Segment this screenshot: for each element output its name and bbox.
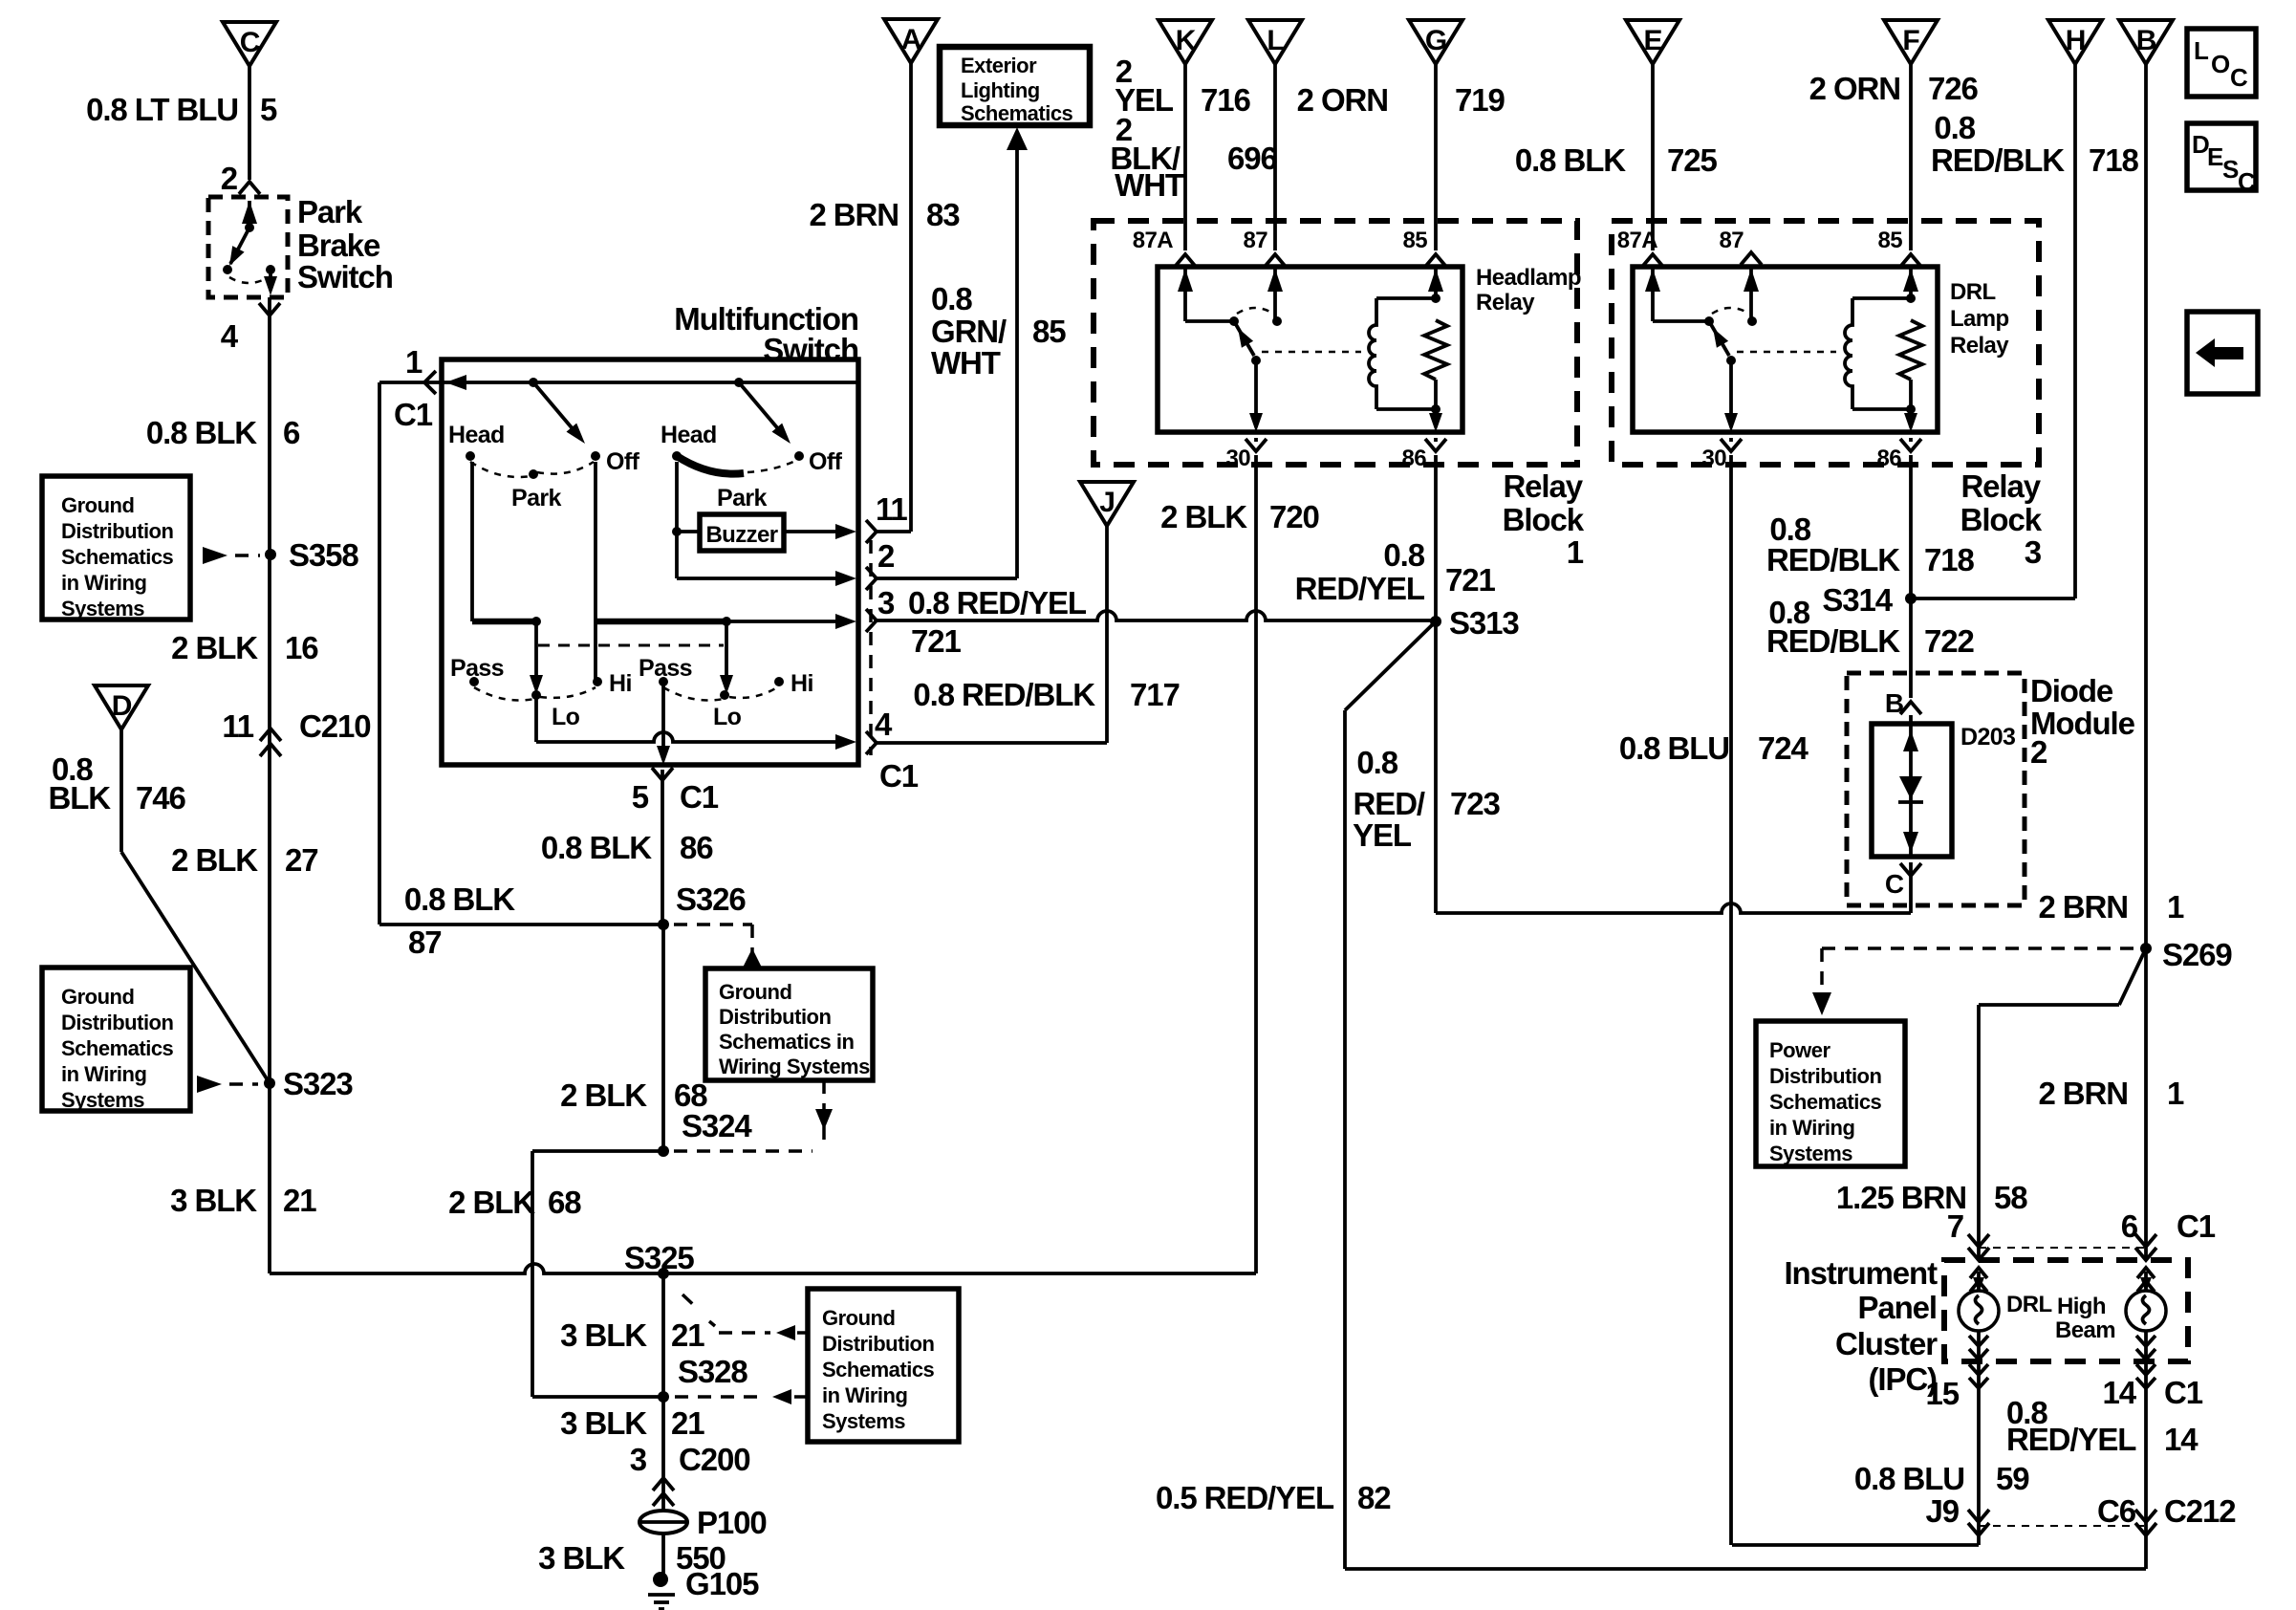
svg-text:59: 59 [1996,1461,2029,1496]
svg-text:Ground: Ground [61,985,134,1009]
svg-text:C1: C1 [394,397,433,432]
svg-text:58: 58 [1994,1180,2027,1215]
svg-text:68: 68 [548,1185,581,1220]
svg-text:0.5 RED/YEL: 0.5 RED/YEL [1156,1480,1334,1515]
svg-text:GRN/: GRN/ [931,314,1007,349]
svg-text:746: 746 [136,780,186,816]
svg-text:C: C [2230,63,2248,92]
svg-text:Lo: Lo [713,704,742,730]
svg-text:3 BLK: 3 BLK [560,1317,647,1353]
svg-text:Buzzer: Buzzer [705,522,777,548]
svg-text:3 BLK: 3 BLK [538,1540,625,1576]
svg-text:Diode: Diode [2030,673,2113,708]
svg-text:2 ORN: 2 ORN [1297,82,1388,118]
svg-text:Relay: Relay [1950,333,2009,359]
svg-text:1: 1 [2167,889,2184,925]
svg-text:WHT: WHT [931,345,1001,381]
svg-text:S314: S314 [1822,582,1893,618]
svg-text:Park: Park [297,194,363,229]
svg-text:2: 2 [877,538,895,574]
svg-text:in Wiring: in Wiring [1769,1116,1854,1140]
svg-text:Block: Block [1503,502,1585,537]
svg-text:in Wiring: in Wiring [61,1062,146,1086]
svg-text:Schematics: Schematics [61,545,174,569]
svg-text:RED/YEL: RED/YEL [2006,1422,2136,1457]
svg-text:C: C [1885,869,1904,899]
svg-text:4: 4 [221,318,239,354]
svg-text:Brake: Brake [297,228,380,263]
svg-text:Schematics: Schematics [822,1358,935,1382]
svg-text:Lamp: Lamp [1950,306,2009,332]
svg-text:721: 721 [911,623,962,659]
svg-text:21: 21 [283,1183,316,1218]
svg-text:C: C [240,27,260,58]
svg-text:WHT: WHT [1115,167,1184,203]
svg-text:726: 726 [1928,71,1979,106]
svg-text:C1: C1 [2164,1375,2203,1410]
svg-text:E: E [2207,142,2223,171]
svg-text:Distribution: Distribution [61,519,173,543]
svg-text:0.8 LT BLU: 0.8 LT BLU [86,92,238,127]
svg-text:2 BLK: 2 BLK [1160,499,1247,534]
svg-text:Headlamp: Headlamp [1476,265,1581,291]
svg-text:0.8 BLK: 0.8 BLK [146,415,257,450]
svg-text:716: 716 [1201,82,1251,118]
svg-text:3: 3 [630,1442,647,1477]
svg-text:Pass: Pass [450,655,504,682]
svg-text:C6: C6 [2097,1493,2136,1529]
svg-text:1: 1 [2167,1076,2184,1111]
svg-text:6: 6 [2121,1208,2138,1244]
svg-text:4: 4 [875,707,893,742]
svg-text:DRL: DRL [2006,1292,2052,1317]
svg-text:D203: D203 [1960,724,2015,751]
svg-text:0.8: 0.8 [1356,745,1397,780]
svg-text:718: 718 [1924,542,1975,577]
svg-text:Ground: Ground [719,980,791,1004]
svg-text:7: 7 [1947,1208,1963,1244]
svg-text:Instrument: Instrument [1784,1255,1938,1291]
svg-text:86: 86 [680,830,713,865]
svg-text:14: 14 [2102,1375,2136,1410]
svg-text:721: 721 [1445,562,1496,598]
svg-text:27: 27 [285,842,318,878]
svg-text:0.8 BLK: 0.8 BLK [404,881,515,917]
svg-text:Lo: Lo [552,704,580,730]
svg-text:Relay: Relay [1503,468,1583,504]
svg-text:High: High [2057,1294,2106,1319]
svg-text:87: 87 [1720,228,1744,253]
svg-text:86: 86 [1877,446,1902,471]
svg-text:5: 5 [260,92,277,127]
svg-text:3 BLK: 3 BLK [170,1183,257,1218]
svg-text:Distribution: Distribution [822,1332,934,1356]
svg-text:724: 724 [1758,730,1809,766]
svg-text:Ground: Ground [822,1306,895,1330]
svg-text:C200: C200 [679,1442,750,1477]
svg-text:11: 11 [876,491,907,527]
svg-text:S: S [2222,155,2239,184]
svg-text:2 BRN: 2 BRN [2038,889,2128,925]
svg-text:Systems: Systems [61,1088,144,1112]
svg-text:11: 11 [222,708,253,744]
svg-text:Switch: Switch [763,332,858,367]
svg-text:J: J [1099,487,1115,518]
svg-text:J9: J9 [1925,1493,1959,1529]
svg-text:0.8: 0.8 [931,281,972,316]
svg-text:Relay: Relay [1960,468,2041,504]
svg-text:L: L [1267,25,1284,56]
svg-text:Wiring Systems: Wiring Systems [719,1055,870,1078]
svg-text:D: D [112,690,132,722]
svg-text:21: 21 [671,1405,704,1441]
svg-text:15: 15 [1925,1376,1959,1411]
svg-text:0.8: 0.8 [1934,110,1975,145]
svg-text:2 BLK: 2 BLK [171,842,258,878]
svg-text:2: 2 [221,161,238,196]
svg-text:2 ORN: 2 ORN [1809,71,1900,106]
svg-text:E: E [1644,25,1662,56]
svg-text:S328: S328 [678,1354,747,1389]
svg-text:S269: S269 [2162,937,2232,972]
svg-text:Switch: Switch [297,259,393,294]
svg-text:Off: Off [809,448,843,475]
svg-text:0.8 BLK: 0.8 BLK [541,830,652,865]
svg-text:S324: S324 [682,1108,752,1143]
svg-text:696: 696 [1227,141,1278,176]
svg-text:Head: Head [448,422,505,448]
svg-text:85: 85 [1403,228,1428,253]
svg-text:C1: C1 [680,779,719,815]
svg-text:720: 720 [1269,499,1319,534]
svg-text:Block: Block [1960,502,2043,537]
svg-text:2 BLK: 2 BLK [560,1077,647,1113]
svg-text:723: 723 [1450,786,1501,821]
svg-text:2: 2 [2030,734,2047,770]
svg-text:Schematics: Schematics [961,101,1073,125]
svg-text:Relay: Relay [1476,290,1535,315]
svg-text:RED/YEL: RED/YEL [1295,571,1425,606]
svg-text:0.8 BLK: 0.8 BLK [1515,142,1626,178]
svg-text:Distribution: Distribution [719,1005,831,1029]
svg-text:3 BLK: 3 BLK [560,1405,647,1441]
svg-text:C: C [2238,167,2256,196]
svg-text:725: 725 [1667,142,1718,178]
svg-text:87: 87 [408,925,442,960]
svg-text:2 BRN: 2 BRN [2038,1076,2128,1111]
svg-text:H: H [2066,25,2086,56]
svg-text:S313: S313 [1449,605,1519,641]
svg-text:0.8 RED/BLK: 0.8 RED/BLK [913,677,1095,712]
svg-text:1: 1 [405,344,422,380]
svg-text:Panel: Panel [1857,1290,1937,1325]
svg-text:2 BRN: 2 BRN [809,197,899,232]
svg-text:3: 3 [877,585,895,620]
svg-text:Distribution: Distribution [61,1011,173,1034]
svg-text:717: 717 [1130,677,1180,712]
svg-text:Schematics: Schematics [1769,1090,1882,1114]
svg-text:RED/BLK: RED/BLK [1766,623,1900,659]
svg-text:C212: C212 [2164,1493,2236,1529]
svg-text:0.8 BLU: 0.8 BLU [1854,1461,1964,1496]
svg-text:P100: P100 [697,1505,767,1540]
svg-text:21: 21 [671,1317,704,1353]
svg-text:F: F [1902,25,1919,56]
svg-text:S323: S323 [283,1066,353,1101]
svg-text:C1: C1 [879,758,919,794]
svg-text:3: 3 [2025,534,2042,570]
svg-text:85: 85 [1878,228,1903,253]
svg-text:Cluster: Cluster [1835,1326,1938,1361]
svg-text:0.8 BLU: 0.8 BLU [1619,730,1729,766]
svg-text:RED/BLK: RED/BLK [1766,542,1900,577]
svg-text:Lighting: Lighting [961,78,1040,102]
svg-text:Hi: Hi [791,670,813,697]
svg-text:S325: S325 [624,1240,694,1275]
svg-text:B: B [2136,25,2156,56]
svg-text:C210: C210 [299,708,371,744]
svg-text:in Wiring: in Wiring [61,571,146,595]
svg-text:0.8 RED/YEL: 0.8 RED/YEL [908,585,1087,620]
svg-text:Systems: Systems [1769,1142,1852,1165]
svg-text:718: 718 [2089,142,2139,178]
svg-text:0.8: 0.8 [1383,537,1424,573]
svg-text:87: 87 [1244,228,1268,253]
svg-text:Head: Head [661,422,717,448]
svg-text:87A: 87A [1133,228,1173,253]
svg-text:Ground: Ground [61,493,134,517]
svg-text:DRL: DRL [1950,279,1996,305]
svg-text:in Wiring: in Wiring [822,1383,907,1407]
svg-text:Systems: Systems [61,597,144,620]
svg-text:30: 30 [1702,446,1727,471]
svg-text:Hi: Hi [609,670,632,697]
svg-text:Park: Park [717,485,768,511]
svg-text:719: 719 [1455,82,1505,118]
svg-text:Systems: Systems [822,1409,905,1433]
svg-text:G105: G105 [685,1566,759,1601]
svg-text:Schematics: Schematics [61,1036,174,1060]
svg-text:S326: S326 [676,881,746,917]
svg-text:L: L [2194,36,2209,65]
svg-text:86: 86 [1402,446,1427,471]
svg-text:83: 83 [926,197,960,232]
svg-text:82: 82 [1357,1480,1391,1515]
svg-text:6: 6 [283,415,300,450]
svg-text:C1: C1 [2177,1208,2216,1244]
svg-text:722: 722 [1924,623,1975,659]
svg-text:1: 1 [1567,534,1584,570]
svg-text:BLK: BLK [48,780,111,816]
svg-text:2 BLK: 2 BLK [448,1185,535,1220]
svg-text:30: 30 [1226,446,1251,471]
svg-text:S358: S358 [289,537,358,573]
svg-text:K: K [1176,25,1197,56]
svg-text:Beam: Beam [2055,1317,2115,1343]
svg-text:Schematics in: Schematics in [719,1030,855,1054]
svg-text:Off: Off [606,448,640,475]
svg-text:O: O [2211,50,2230,78]
svg-text:14: 14 [2164,1422,2199,1457]
svg-text:Distribution: Distribution [1769,1064,1881,1088]
svg-text:RED/: RED/ [1354,786,1425,821]
svg-text:YEL: YEL [1353,817,1412,853]
svg-text:RED/BLK: RED/BLK [1931,142,2065,178]
svg-text:2 BLK: 2 BLK [171,630,258,665]
svg-text:Exterior: Exterior [961,54,1037,77]
svg-text:G: G [1425,25,1446,56]
svg-text:A: A [901,24,921,55]
svg-text:Park: Park [511,485,562,511]
svg-text:5: 5 [632,779,649,815]
svg-text:85: 85 [1032,314,1066,349]
svg-text:Power: Power [1769,1038,1830,1062]
svg-text:16: 16 [285,630,318,665]
